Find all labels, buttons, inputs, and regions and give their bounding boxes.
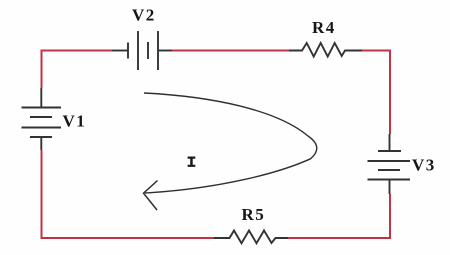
current loop arc xyxy=(144,93,317,193)
wire top-right segment with corner (node between R4 and V3) xyxy=(362,51,390,135)
battery V2 xyxy=(112,31,172,70)
svg-text:R5: R5 xyxy=(242,205,266,224)
wire top-middle segment (node between V2 and R4) xyxy=(172,50,289,52)
svg-text:V3: V3 xyxy=(412,156,436,175)
svg-text:R4: R4 xyxy=(312,18,336,37)
label I (loop current) xyxy=(188,157,196,167)
svg-text:V1: V1 xyxy=(63,111,87,130)
wire left-bottom segment (node between V1 and R5) xyxy=(42,150,215,238)
resistor R5 xyxy=(214,231,288,244)
wire right-bottom segment (node between V3 and R5) xyxy=(288,194,390,238)
resistor R4 xyxy=(289,43,362,57)
svg-text:V2: V2 xyxy=(132,6,156,25)
current arrowhead xyxy=(144,181,158,211)
wire top-left segment (node between V1 and V2) xyxy=(41,50,112,52)
wire left-top segment with corner (V1 top lead net) xyxy=(41,50,43,89)
battery V1 xyxy=(22,88,62,150)
battery V3 xyxy=(368,134,411,194)
